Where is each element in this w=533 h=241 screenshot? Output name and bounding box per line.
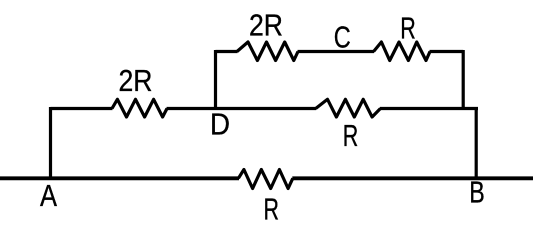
svg-text:2R: 2R [119,63,153,98]
svg-text:2R: 2R [249,8,283,43]
svg-text:C: C [334,20,351,55]
svg-text:R: R [343,118,359,153]
svg-text:B: B [469,175,485,210]
svg-text:R: R [400,11,416,46]
svg-text:R: R [264,192,280,227]
svg-text:A: A [40,178,57,213]
svg-text:D: D [210,107,230,142]
